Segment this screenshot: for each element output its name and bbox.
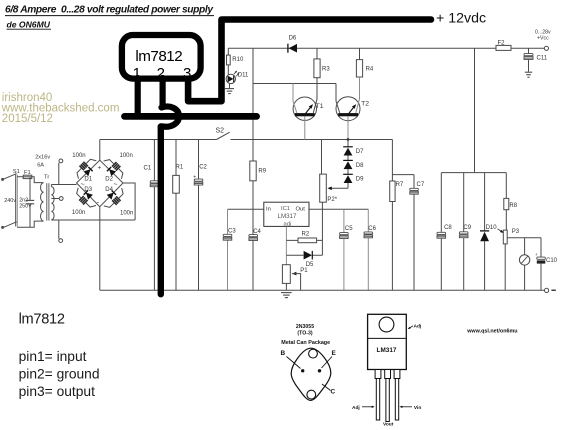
svg-text:S1: S1 [13,169,20,175]
capacitor C7 [392,175,414,291]
svg-text:D10: D10 [486,225,498,231]
wire ground rail [100,289,545,291]
transformer secondary terminals [59,159,63,163]
svg-text:C8: C8 [444,225,452,231]
svg-text:R3: R3 [322,67,330,73]
resistor R1 [175,140,177,291]
svg-text:C7: C7 [417,182,425,188]
svg-text:C2: C2 [199,165,207,171]
wire LM317 input line [228,208,264,210]
fuse F2 [496,45,511,50]
diode D9 [343,173,353,175]
svg-text:Vin: Vin [414,405,421,411]
lamp meter [524,238,526,291]
wire secondary center tap stub [51,198,59,200]
svg-text:-: - [97,200,100,207]
svg-text:C9: C9 [463,225,471,231]
svg-text:2n2: 2n2 [19,197,28,203]
svg-text:D9: D9 [356,177,364,183]
diode D3 [86,193,93,200]
fuse F1 [23,175,32,178]
ground under C11 [525,71,532,73]
wire mains top [17,177,44,183]
svg-text:C11: C11 [537,56,548,62]
svg-text:D7: D7 [356,149,364,155]
capacitor C8 [440,173,442,291]
ground under P1 [281,292,292,294]
potentiometer P2 [327,187,331,191]
svg-text:LM317: LM317 [377,347,397,354]
wire D11 to ground [229,83,231,88]
svg-text:R9: R9 [258,168,266,174]
potentiometer P1 [282,265,290,284]
diode D2 [109,169,116,176]
resistor R4 [359,48,361,59]
resistor R10 [227,48,229,74]
capacitor C9 [463,173,465,291]
svg-text:C6: C6 [368,226,376,232]
svg-text:R7: R7 [396,182,404,188]
svg-text:C5: C5 [345,226,353,232]
svg-text:pin3= output: pin3= output [19,384,96,399]
wire bridge plus output stub [99,140,101,161]
wire adj column [285,226,287,264]
svg-text:Tr: Tr [44,175,49,181]
svg-text:F1: F1 [24,170,31,176]
capacitor 100n top-right [104,155,128,179]
svg-text:240v: 240v [4,198,16,204]
svg-text:T2: T2 [361,101,369,108]
svg-text:6/8 Ampere 0...28 volt regula: 6/8 Ampere 0...28 volt regulated power s… [5,4,214,15]
svg-text:B: B [281,350,286,357]
wire mains bottom [17,221,44,227]
svg-text:D1: D1 [84,176,92,182]
LM317 TO-220 package [368,314,407,369]
svg-text:S2: S2 [216,128,225,135]
svg-text:~: ~ [114,182,118,189]
led D11 [226,74,235,83]
svg-text:P1: P1 [300,268,308,274]
svg-text:D6: D6 [289,36,297,42]
bridge rectifier diamond [77,160,124,207]
svg-text:+ 12vdc: + 12vdc [436,10,486,26]
svg-text:D11: D11 [238,72,249,78]
svg-text:6A: 6A [37,163,44,169]
svg-text:+Vcc: +Vcc [537,35,549,41]
wire base line [253,83,336,85]
svg-text:Vout: Vout [383,421,394,427]
svg-text:T1: T1 [316,103,324,110]
svg-text:2x16v: 2x16v [35,155,50,161]
svg-text:C10: C10 [546,258,558,264]
wire positive rail after bridge [100,139,393,141]
transistor T1 [293,97,316,120]
diode D7 [347,140,349,148]
wire right dropper column [441,48,506,172]
svg-text:D3: D3 [84,187,92,193]
node mains terminal top [1,178,4,181]
svg-text:IC1: IC1 [281,206,290,212]
capacitor C11 [528,48,530,71]
svg-text:R2: R2 [302,232,310,238]
svg-text:Adj: Adj [352,405,360,411]
svg-text:Adj: Adj [414,323,422,329]
wire LM317 output line [309,208,368,210]
svg-text:3: 3 [183,65,191,82]
svg-text:LM317: LM317 [278,213,297,220]
potentiometer P3 [503,230,507,244]
svg-text:D8: D8 [356,163,364,169]
resistor R8 [505,173,507,231]
node output plus terminal [544,46,548,50]
svg-text:adj: adj [284,221,292,227]
ground under D11 [225,88,234,90]
diode D8 [343,159,353,161]
svg-text:lm7812: lm7812 [135,48,182,65]
svg-text:C: C [331,389,336,396]
capacitor C4 [249,235,258,237]
svg-text:R8: R8 [509,203,517,209]
diode D4 [107,193,114,200]
capacitor C3 [227,209,229,290]
svg-text:In: In [266,206,271,212]
overlay wire pin3 to +12vdc rail [188,20,431,102]
capacitor 100n top-left [73,155,97,179]
wire bridge minus output stub [99,207,101,291]
svg-text:250V: 250V [19,204,32,210]
svg-text:2015/5/12: 2015/5/12 [2,113,53,125]
overlay wire pin2 to ground [160,78,166,107]
capacitor 100n bottom-right [104,188,128,212]
svg-text:de ON6MU: de ON6MU [7,20,51,30]
resistor R7 [391,140,393,291]
resistor R3 [316,48,318,83]
svg-text:+: + [535,252,538,257]
svg-text:lm7812: lm7812 [19,312,65,328]
overlay wire pin1 to input [135,78,141,116]
resistor R9 [250,161,256,181]
svg-text:100n: 100n [120,210,133,216]
capacitor C2 [198,140,200,291]
diode D6 [287,44,289,53]
diode D10 [484,173,486,291]
svg-text:100n: 100n [120,153,133,159]
svg-text:pin2= ground: pin2= ground [19,367,100,382]
capacitor 100n bottom-left [72,188,96,212]
diode D1 [84,169,91,176]
transistor T2 [336,97,360,121]
wire raw dc column [252,48,254,290]
switch S1 [3,174,16,180]
svg-text:P2*: P2* [327,197,337,203]
svg-text:C1: C1 [144,165,152,171]
resistor R2 [286,239,322,241]
svg-text:(TO-3): (TO-3) [297,331,312,337]
svg-text:Out: Out [296,206,306,212]
svg-text:R10: R10 [232,57,244,63]
svg-text:P3: P3 [512,229,520,235]
svg-text:www.qsl.net/on6mu: www.qsl.net/on6mu [466,329,517,335]
svg-text:E: E [332,350,337,357]
capacitor C5 [343,209,345,290]
svg-text:R1: R1 [176,165,184,171]
capacitor C10 [540,238,542,291]
svg-text:F2: F2 [498,40,506,46]
svg-text:D4: D4 [105,187,113,193]
svg-text:R4: R4 [366,67,374,73]
transformer Tr [41,183,44,222]
svg-text:Metal Can Package: Metal Can Package [281,340,330,346]
svg-text:~: ~ [81,182,85,189]
wire bridge AC2 right [123,183,135,220]
capacitor C1 [153,140,155,291]
svg-text:C4: C4 [253,229,261,235]
svg-text:+: + [98,165,102,172]
switch S2 [217,132,230,139]
svg-text:+: + [193,174,196,180]
svg-text:2N3055: 2N3055 [296,324,314,330]
svg-text:pin1= input: pin1= input [19,349,87,364]
svg-text:D2: D2 [105,176,113,182]
capacitor 2n2/250V [29,177,31,228]
wire top rail [228,47,544,49]
wire secondary top tap to bridge AC1 [51,163,76,187]
node T2 emitter junction [347,138,350,141]
wire secondary bottom tap to bridge AC2 [51,220,135,239]
svg-text:100n: 100n [72,210,85,216]
node output minus terminal [545,288,549,292]
svg-text:C3: C3 [228,229,236,235]
op-amp IC1 LM317 box [264,202,309,226]
svg-text:100n: 100n [72,153,85,159]
diode D5 [286,254,322,256]
overlay lm7812 body [122,35,201,79]
capacitor C6 [367,209,369,290]
